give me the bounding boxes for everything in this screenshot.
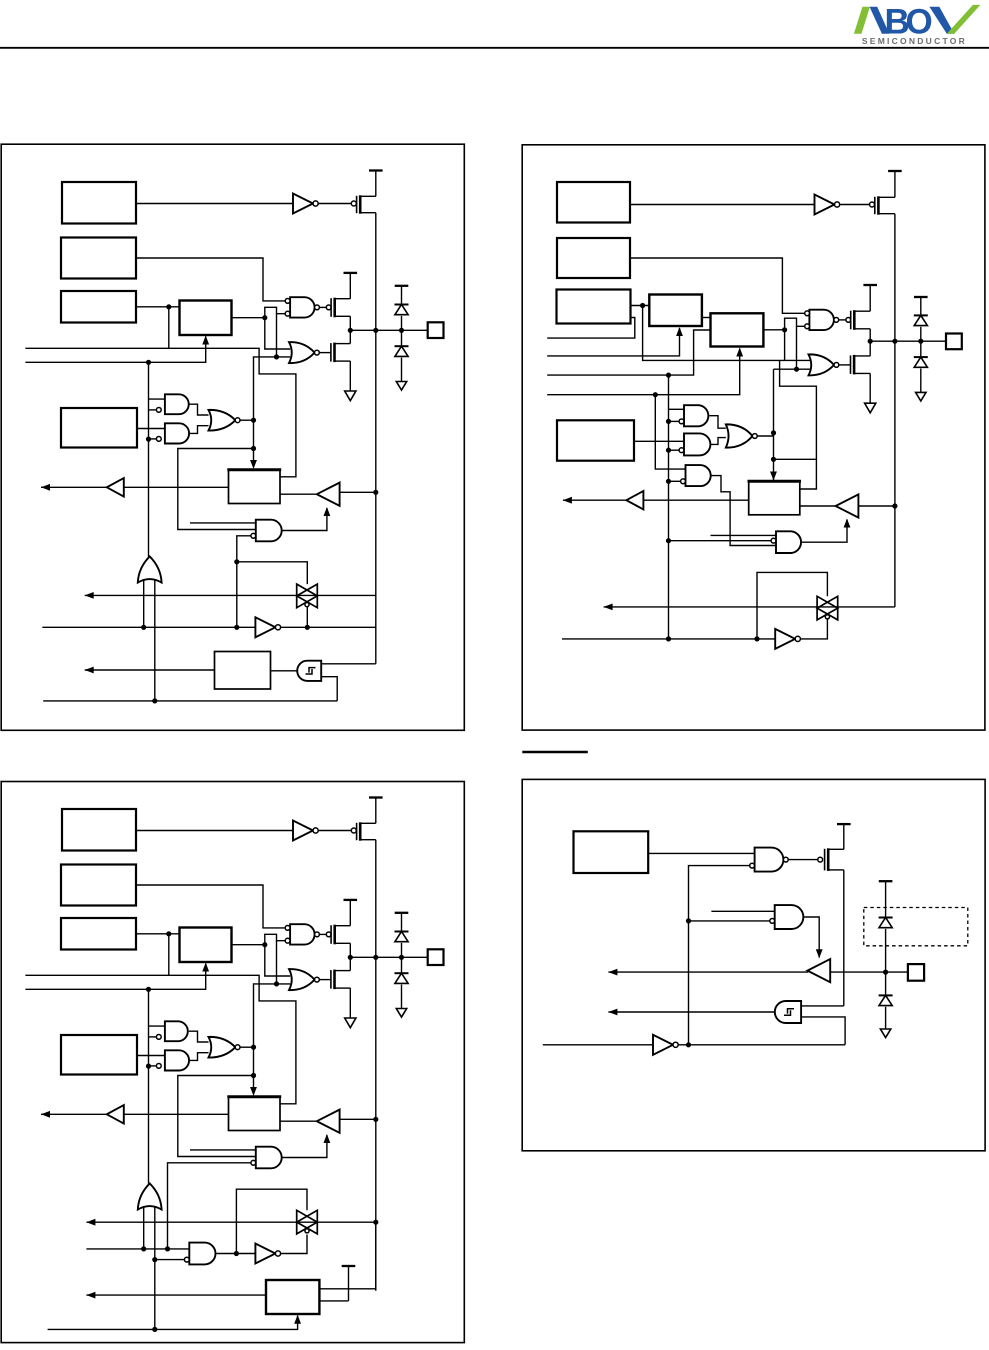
wire P1 NOR out to NMOS gate — [319, 352, 330, 354]
wire P3 vertical feed of AND pair — [148, 989, 150, 1183]
ground of protection diodes P3 — [396, 1009, 406, 1018]
input line 5 P1 (bottom) — [43, 700, 337, 702]
wire P2 OR out to latch arrow vertical — [757, 435, 773, 437]
VDD of output register P3 — [342, 1265, 356, 1267]
NAND gate P1 (PMOS driver) — [290, 297, 315, 317]
register box P3B — [61, 865, 136, 906]
ABOV logo lambda left stroke (green) — [854, 7, 870, 34]
analog-switch top loop P2 — [757, 572, 827, 639]
wire P3 inverter to PMOS gate — [318, 830, 351, 832]
outer frame box 4 — [522, 779, 985, 1150]
wire P1 ctrl NAND bubble input feed — [237, 536, 251, 628]
schmitt buffer P4 — [775, 1001, 801, 1023]
inverter P2 on line 5 — [775, 629, 795, 649]
wire P1 OR-out to NOR lower input — [254, 357, 291, 420]
wire P1 reg C to mux — [136, 306, 180, 308]
wire P2 ctrl NAND out to tri-state enable — [802, 520, 847, 543]
AND gate P2F — [684, 433, 710, 455]
protection diode P3 upper — [395, 931, 409, 933]
PMOS P3 pull-up transistor (top) — [351, 828, 356, 833]
wire P2 regB to NAND upper input — [630, 258, 805, 313]
wire P2 NAND out to PMOS driver gate — [839, 319, 846, 321]
outer frame box 1 — [1, 144, 464, 730]
read-control NAND P2 — [776, 531, 801, 553]
inverter P2-1 — [815, 195, 835, 215]
tri-state read buffer P1 — [317, 483, 340, 506]
outer frame box 2 — [522, 145, 985, 730]
wire P2 regC-dot latch loop (line A) — [643, 306, 812, 361]
input line 3 P2 (mux B data) — [547, 330, 710, 375]
wire P3 regD to AND F input — [137, 1055, 165, 1057]
wire P3 reg A to inverter — [136, 830, 293, 832]
wire P2 NOR out to NMOS gate — [839, 364, 851, 366]
read-control NAND P1 (3-input) — [256, 520, 282, 542]
NMOS driver P3 — [330, 970, 332, 989]
NOR lower input wire P2 — [774, 368, 812, 370]
wire P1 branch to analog switch top — [237, 562, 307, 584]
wire P1 ctrl NAND out to tri-state enable — [282, 508, 327, 531]
wire P1 reg A to inverter — [136, 203, 293, 205]
ground of protection diodes P2 — [916, 392, 926, 401]
NMOS driver P1 — [330, 343, 332, 362]
wire P2 regC to mux A — [631, 305, 650, 307]
input line 3 P1 with inverter — [42, 626, 255, 628]
input line 3 P3 — [86, 1248, 189, 1250]
wire P2 line4 to AND G input — [655, 395, 685, 469]
I/O pad P4 — [908, 964, 924, 981]
OR gate P1G collecting AND pair — [189, 404, 209, 415]
VDD supply of PMOS P1 top — [369, 169, 383, 171]
pad-net vertical wire P1 — [375, 213, 377, 664]
wire P3 NAND lower input to NOR lower wire — [276, 941, 278, 984]
ABOV logo letter V right stroke (green) — [947, 5, 981, 34]
register box P2C — [557, 290, 631, 324]
read-control NAND P4 — [775, 905, 804, 929]
latch output buffer P1 — [107, 486, 229, 488]
schmitt P1 input wires — [321, 663, 376, 665]
input line 4 P2 (mux B select) — [547, 349, 740, 395]
wire P1 regD to AND F input — [137, 428, 165, 430]
wire P1 regC-dot down to line1 — [168, 307, 170, 349]
pull-up enable OR gate P1 (points up) — [138, 556, 162, 582]
dashed option box P4 — [864, 908, 968, 946]
PMOS P1 pull-up transistor (top) — [351, 201, 356, 206]
pad output line P3 — [350, 956, 427, 958]
wire P2 mux B out junction — [763, 329, 784, 331]
mux box P2 B — [711, 313, 764, 346]
inverter P3 on line 3 — [255, 1244, 275, 1264]
AND gate P1E (upper of pair) — [165, 394, 189, 414]
register box P2D — [557, 420, 634, 460]
register box P1A — [62, 182, 136, 224]
VDD of PMOS driver P4 — [837, 823, 851, 825]
VDD supply of PMOS driver P3 — [344, 899, 358, 901]
pad-net vertical wire P3 — [375, 840, 377, 1291]
protection diode P4 lower — [879, 994, 893, 996]
output register box P3 (bottom) — [266, 1280, 319, 1314]
mux/control box P1 — [180, 301, 232, 336]
latch output buffer P3 — [107, 1113, 229, 1115]
VDD of protection diodes P1 — [395, 285, 409, 287]
wire P1 jog to NAND lower input — [265, 307, 285, 317]
wire P2 AND G out to read NAND — [711, 476, 776, 546]
arrow into mux bottom P3 — [202, 963, 209, 972]
register box P1D — [61, 408, 137, 448]
wire P1 mux out with junction — [232, 317, 265, 319]
wire P3 OR-out to NOR lower input — [254, 984, 291, 1047]
wire P2 regD to AND F — [634, 440, 684, 442]
I/O pad P1 — [428, 322, 444, 338]
header rule — [0, 47, 989, 49]
VDD of PMOS driver P2 — [863, 284, 877, 286]
NOR gate P2 (NMOS driver) — [809, 354, 835, 375]
wire P3 reg C to mux — [136, 933, 180, 935]
protection diode P4 upper — [879, 917, 893, 919]
inverter P4 — [653, 1035, 673, 1055]
input line 5 P4 with inverter — [543, 1044, 653, 1046]
register box P3C — [61, 918, 136, 950]
PMOS driver P3 — [326, 932, 331, 937]
pad line P4 — [830, 971, 908, 973]
wire P3 NOR out to NMOS gate — [319, 979, 330, 981]
wire P1 OR out to latch arrow — [240, 419, 254, 421]
input latch box P1 — [229, 470, 281, 504]
AND gate P2G — [686, 465, 711, 486]
AND gate P3F (lower of pair) — [165, 1050, 189, 1070]
NAND gate P3 on line 3 — [189, 1243, 215, 1265]
wire P4 regA to NAND — [648, 852, 754, 854]
input line 1 P3 (to latch loop) — [25, 975, 296, 1104]
VDD of protection diodes P3 — [395, 912, 409, 914]
wire P3 regC-dot down to line1 — [168, 934, 170, 976]
ABOV logo letter V left stroke (blue) — [929, 7, 954, 34]
wire P3 mux out with junction — [232, 944, 265, 946]
NMOS driver P2 — [850, 355, 852, 374]
mux/control box P3 — [180, 928, 232, 963]
internal data arrow P3 from latch — [41, 1113, 107, 1115]
AND gate P3E (upper of pair) — [165, 1021, 188, 1041]
register box P3A — [62, 809, 136, 851]
pad-net vertical wire P2 — [894, 214, 896, 607]
internal data arrow P2 — [563, 499, 626, 501]
protection diode P2 upper — [914, 314, 928, 316]
AND gate P1F (lower of pair) — [165, 423, 189, 443]
protection diode P1 lower — [395, 345, 409, 347]
PMOS P2 pull-up (top) — [870, 202, 875, 207]
protection diode P2 lower — [914, 356, 928, 358]
mux box P2 A — [649, 295, 702, 327]
VDD of protection diodes P4 — [879, 880, 893, 882]
NAND gate P3 (PMOS driver) — [290, 924, 315, 944]
tri-state read buffer P3 — [317, 1110, 340, 1133]
latch loop staircase P2 — [780, 360, 817, 489]
arrow into mux bottom P1 — [202, 336, 209, 345]
analog switch P3 — [86, 1221, 375, 1223]
alternate-function arrow line P3 — [86, 1219, 95, 1226]
pad output line P2 — [870, 340, 946, 342]
register box P1B — [61, 238, 136, 279]
input line 5 P2 with inverter — [562, 638, 775, 640]
PMOS driver P1 — [326, 305, 331, 310]
external interrupt arrow line P4 — [608, 1011, 774, 1013]
latch output buffer P2 — [626, 499, 749, 501]
input line 2 P2 (mux A select) — [547, 328, 679, 356]
analog switch P2 — [604, 606, 895, 608]
AND gate P2E — [684, 405, 708, 426]
input line 2 P1 (to mux select) — [25, 337, 205, 363]
noise canceller box P1 — [215, 652, 271, 690]
register box P2B — [557, 238, 630, 278]
input latch box P3 — [229, 1097, 281, 1131]
NOR gate P1 (NMOS driver) — [289, 342, 315, 363]
internal data arrow P1 from latch — [41, 486, 107, 488]
input latch box P2 — [749, 481, 800, 515]
OR gate P2H collecting ANDs — [709, 416, 725, 429]
NOR gate P3 (NMOS driver) — [289, 969, 315, 990]
wire P1 NAND lower input to NOR lower wire — [276, 314, 278, 357]
wire P3 ctrl NAND bubble feed to line 3 — [168, 1163, 251, 1249]
wire P4 NAND out to PMOS gate — [788, 859, 818, 861]
wire P1 reg B to NAND upper input — [136, 258, 285, 301]
inverter P31 — [293, 821, 313, 841]
wire P1 vertical feed of AND pair — [148, 362, 150, 556]
ABOV logo lambda right stroke (blue) — [870, 7, 890, 34]
analog-switch top loop P3 — [236, 1189, 307, 1253]
wire P2 vertical to latch arrow — [773, 369, 775, 480]
wire P3 OR out to latch arrow — [240, 1046, 254, 1048]
register box P4A — [574, 831, 649, 873]
wire P3 output register to pad net — [319, 1288, 375, 1290]
OR gate P3 input stubs — [143, 1206, 145, 1249]
input line 1 P1 (to latch loop) — [25, 348, 296, 477]
wire P2 regA to inverter — [630, 204, 815, 206]
wire P3 NAND out to PMOS driver gate — [319, 933, 326, 935]
wire P1 NAND out to PMOS driver gate — [319, 306, 326, 308]
ground of NMOS driver P3 — [345, 1018, 356, 1028]
PMOS driver P4 — [818, 857, 823, 862]
wire P3 reg B to NAND upper input — [136, 885, 285, 928]
protection diode P1 upper — [395, 304, 409, 306]
tri-state read buffer P4 — [807, 959, 830, 982]
wire P3 ctrl NAND out to tri-state enable — [282, 1135, 327, 1158]
I/O pad P2 — [946, 334, 962, 350]
vertical feed wire P2 of AND bubbles — [668, 375, 670, 639]
register box P1C — [61, 291, 136, 323]
NAND gate P2 (PMOS driver) — [809, 310, 834, 330]
VDD supply of PMOS driver P1 — [344, 272, 358, 274]
wire P3 jog to NAND lower input — [265, 934, 285, 944]
tri-state read buffer P2 — [836, 494, 859, 517]
external interrupt arrow line P3 — [86, 1294, 266, 1296]
ground of protection diodes P4 — [880, 1029, 890, 1038]
PMOS driver P2 — [846, 318, 851, 323]
wire P3 NAND out to inverter — [215, 1253, 255, 1255]
register box P3D — [61, 1035, 137, 1075]
input line 5 P3 (bottom) with register clock arrow — [48, 1316, 298, 1330]
wire P2 mux B dot to NOR-upper line — [784, 330, 786, 361]
external interrupt arrow line P1 — [85, 669, 215, 671]
ground of NMOS driver P1 — [345, 391, 356, 401]
wire P3 mux-dot to NOR upper input — [265, 945, 290, 976]
alternate-function arrow line P1 — [85, 592, 94, 599]
schmitt P4 input wires — [801, 1005, 844, 1007]
ground of NMOS driver P2 — [865, 403, 876, 413]
analog switch (transmission gate) P1 — [85, 594, 376, 596]
schmitt input AND P1 — [297, 661, 321, 681]
alternate-function arrow line P2 — [604, 604, 613, 611]
NAND gate P4 (PMOS driver) — [755, 848, 784, 872]
inverter P11 — [293, 194, 313, 214]
svg-text:SEMICONDUCTOR: SEMICONDUCTOR — [862, 36, 967, 46]
wire P1 inverter to PMOS gate — [318, 203, 351, 205]
pad-net vertical wire P4 — [843, 870, 845, 1006]
ground of protection diodes P1 — [396, 382, 406, 391]
OR gate P1 input stubs — [143, 579, 145, 627]
pull-up enable OR gate P3 — [138, 1183, 162, 1209]
figure caption underline — [522, 751, 588, 753]
protection diode P3 lower — [395, 972, 409, 974]
register box P2A — [557, 182, 630, 223]
internal data arrow P4 — [608, 971, 808, 973]
inverter P1 on line 3 — [255, 617, 275, 637]
VDD of protection diodes P2 — [914, 296, 928, 298]
wire P4 ctrl NAND out to tri-state enable — [803, 917, 819, 958]
wire P1 mux-dot to NOR upper input — [265, 318, 290, 349]
wire P2 jog to NAND lower input — [785, 318, 805, 330]
connector mux A to mux B — [702, 317, 711, 319]
outer frame box 3 — [1, 782, 464, 1343]
pad output line P1 — [350, 329, 427, 331]
input line 2 P3 (to mux select) — [25, 964, 205, 990]
OR gate P3G collecting AND pair — [189, 1031, 209, 1042]
I/O pad P3 — [428, 949, 444, 965]
read-control NAND P3 (3-input) — [256, 1147, 282, 1169]
VDD of PMOS P2 top — [888, 170, 902, 172]
input line 1 P2 — [547, 318, 635, 339]
VDD supply of PMOS P3 top — [369, 796, 383, 798]
wire P4 NAND bubble feed vertical — [689, 866, 750, 1045]
